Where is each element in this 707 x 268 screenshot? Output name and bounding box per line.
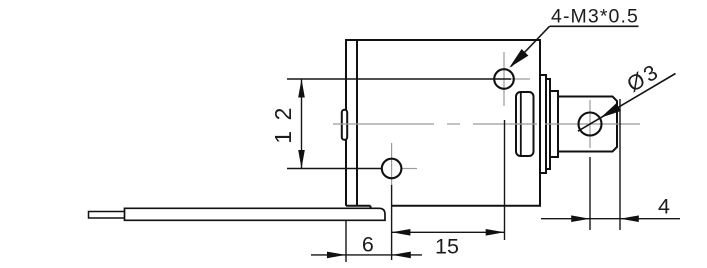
dim 15 arrow right	[486, 229, 505, 236]
body inner left plate line	[356, 40, 358, 206]
dim 12 extension top	[287, 78, 511, 80]
dim 15 arrow left	[392, 229, 411, 236]
crosshair top hole	[503, 52, 505, 106]
solenoid body outline	[346, 40, 540, 208]
step plate B	[546, 79, 550, 169]
dim 6 extension left	[345, 221, 347, 262]
dim 4 extension right (head edge)	[619, 99, 621, 230]
svg-text:4: 4	[658, 194, 670, 218]
svg-text:4-M3*0.5: 4-M3*0.5	[551, 6, 639, 28]
extension line from bottom hole down	[391, 185, 393, 260]
hole bottom M3	[382, 159, 402, 179]
dim 6 arrow right-pointing	[327, 252, 346, 259]
step plate A	[540, 75, 546, 173]
leader arrowhead	[509, 49, 528, 68]
dim 4 arrow left-pointing	[620, 215, 639, 222]
hole top M3	[494, 69, 514, 89]
svg-text:6: 6	[362, 233, 374, 257]
centerline main horizontal	[333, 123, 434, 125]
plunger head	[558, 97, 617, 152]
lead wire insulated	[125, 208, 386, 220]
dim 4 line	[541, 218, 680, 220]
dim 15 extension right	[504, 120, 506, 240]
dim 4 arrow right-pointing	[571, 215, 590, 222]
plunger hole O3	[579, 113, 602, 136]
leader O3 arrowhead	[601, 103, 621, 118]
leader O3	[578, 74, 676, 132]
crosshair plunger hole	[589, 100, 591, 148]
svg-text:15: 15	[435, 234, 459, 258]
dim 6 line	[311, 254, 422, 256]
bobbin flange plate (rounded)	[516, 92, 534, 156]
dim 6 arrow left-pointing	[392, 252, 411, 259]
dim 15 line	[392, 231, 505, 233]
dim 12 extension bottom	[287, 168, 382, 170]
dim 12 line	[301, 79, 303, 169]
plunger collar	[550, 91, 558, 157]
label underline	[550, 25, 639, 27]
leader to top hole	[511, 26, 550, 66]
crosshair bottom hole	[391, 143, 393, 185]
svg-text:12: 12	[270, 97, 296, 144]
dim 12 arrow down	[298, 150, 305, 169]
dim 4 extension left (hole center)	[589, 157, 591, 230]
dim 12 arrow up	[298, 79, 305, 98]
lead wire bare tip	[89, 212, 125, 219]
bobbin tab on left edge	[342, 110, 347, 140]
